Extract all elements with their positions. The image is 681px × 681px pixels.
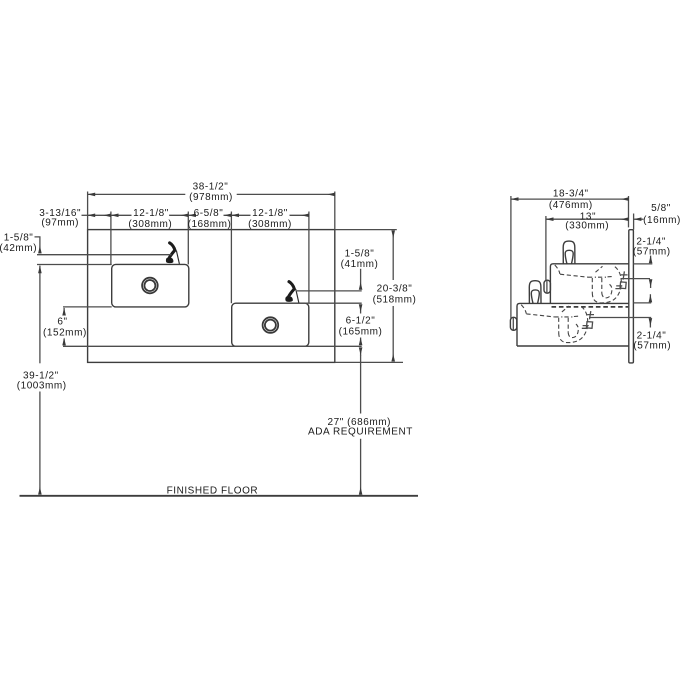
svg-text:(41mm): (41mm) <box>341 259 379 270</box>
svg-text:(152mm): (152mm) <box>43 327 87 338</box>
svg-text:18-3/4": 18-3/4" <box>553 188 589 199</box>
svg-text:(1003mm): (1003mm) <box>17 381 67 392</box>
svg-text:(476mm): (476mm) <box>549 200 593 211</box>
upper basin top extension (left) <box>37 264 112 266</box>
upper push button (side) <box>544 280 550 293</box>
upper trap U-bend <box>592 266 621 303</box>
dim 6-1/2 arrows <box>360 305 362 314</box>
top extension right <box>334 192 336 230</box>
svg-text:5/8": 5/8" <box>651 203 671 214</box>
lower bubbler (side) <box>529 281 541 304</box>
18-3/4 right extension <box>628 196 630 227</box>
svg-text:6-5/8": 6-5/8" <box>194 208 224 219</box>
lower trap tailpiece <box>554 315 580 318</box>
5/8 extension above panel <box>633 214 635 230</box>
wall panel <box>629 230 634 363</box>
svg-text:(97mm): (97mm) <box>41 217 79 228</box>
dim 39-1/2 <box>39 266 41 364</box>
dim 12-1/8 (right) <box>231 214 250 216</box>
upper pushbutton circle <box>142 278 158 294</box>
lower basin top right extension <box>305 302 362 304</box>
svg-text:(165mm): (165mm) <box>339 327 383 338</box>
upper trap tailpiece <box>588 275 614 278</box>
svg-text:(42mm): (42mm) <box>0 243 37 254</box>
dim 6-5/8 <box>188 214 195 216</box>
svg-text:38-1/2": 38-1/2" <box>193 181 229 192</box>
svg-text:(57mm): (57mm) <box>633 246 671 257</box>
svg-text:6": 6" <box>57 317 67 328</box>
lower unit bottom <box>517 345 629 347</box>
svg-text:(16mm): (16mm) <box>643 215 681 226</box>
upper basin bottom extension (left) <box>63 306 112 308</box>
upper drain outlet line <box>621 278 651 280</box>
dim 27 ADA <box>360 348 362 356</box>
extension L3 <box>187 212 189 265</box>
upper bubbler (side) <box>563 241 575 264</box>
upper basin hidden outline <box>555 265 560 274</box>
lower basin <box>232 303 309 346</box>
13 left extension <box>545 216 547 280</box>
top edge right extension <box>335 229 397 231</box>
svg-text:ADA REQUIREMENT: ADA REQUIREMENT <box>308 426 413 437</box>
dim 13 <box>546 218 628 220</box>
svg-text:(330mm): (330mm) <box>565 221 609 232</box>
dim 18-3/4 <box>511 198 629 200</box>
svg-text:(57mm): (57mm) <box>633 340 671 351</box>
svg-text:FINISHED FLOOR: FINISHED FLOOR <box>167 485 259 496</box>
dim 38-1/2 line <box>88 193 186 195</box>
left spout height line <box>37 254 172 256</box>
lower unit top <box>517 303 629 346</box>
lower pushbutton circle <box>263 317 279 333</box>
svg-text:20-3/8": 20-3/8" <box>377 283 413 294</box>
dim 20-3/8 <box>392 231 394 280</box>
lower trap U-bend <box>559 306 588 343</box>
upper trap fittings <box>615 286 622 289</box>
upper basin <box>112 264 189 307</box>
svg-text:(168mm): (168mm) <box>188 219 232 230</box>
lower basin hidden outline <box>521 305 526 314</box>
svg-text:(518mm): (518mm) <box>373 294 417 305</box>
svg-text:12-1/8": 12-1/8" <box>133 208 169 219</box>
extension L5 <box>308 212 310 304</box>
bottom edge right extension <box>335 361 403 363</box>
lower push button (side) <box>510 317 516 330</box>
svg-text:(308mm): (308mm) <box>248 219 292 230</box>
svg-text:12-1/8": 12-1/8" <box>252 208 288 219</box>
lower basin bottom long extension line <box>63 345 362 347</box>
dim 6 (152mm) <box>63 308 65 314</box>
upper unit hidden bottom (coarse dash) <box>552 306 629 308</box>
extension L4 <box>230 212 232 304</box>
upper bubbler (front) <box>166 243 179 264</box>
dim 2-1/4 lower <box>649 294 651 302</box>
18-3/4 left extension <box>510 196 512 319</box>
upper unit top <box>550 264 628 304</box>
outer cabinet rectangle <box>88 230 335 363</box>
svg-text:(308mm): (308mm) <box>128 219 172 230</box>
lower trap fittings <box>582 326 589 329</box>
lower drain outlet line <box>589 317 651 319</box>
svg-text:(978mm): (978mm) <box>189 192 233 203</box>
svg-text:6-1/2": 6-1/2" <box>346 315 376 326</box>
lower bubbler (front) <box>286 282 299 303</box>
floor line <box>20 495 419 497</box>
extension L2 <box>110 212 112 265</box>
svg-text:1-5/8": 1-5/8" <box>345 249 375 260</box>
top extension left <box>87 192 89 230</box>
right spout height line <box>297 290 362 292</box>
dim 12-1/8 (left) <box>111 214 132 216</box>
dim 5/8 arrow <box>634 218 644 220</box>
